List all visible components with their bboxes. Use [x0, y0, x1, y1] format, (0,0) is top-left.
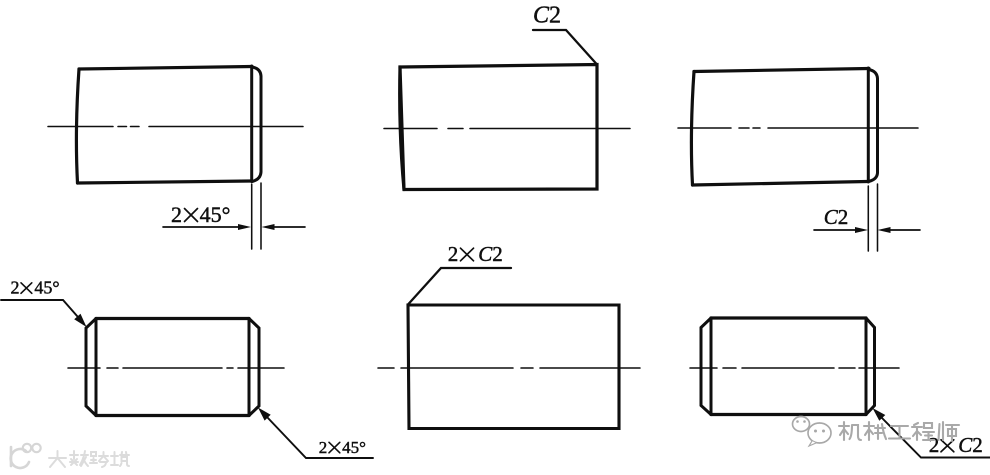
- left chamfer base line (bottom-right pin): [710, 318, 713, 415]
- svg-text:C2: C2: [824, 205, 849, 229]
- svg-text:C2: C2: [533, 3, 561, 29]
- watermark large chat bubble: [808, 423, 831, 443]
- watermark char kua: [90, 452, 108, 467]
- leader text 2xC2 (bottom-right): [929, 433, 983, 457]
- right chamfer end face (bottom-left pin): [249, 319, 259, 416]
- watermark char xie: [864, 422, 886, 440]
- watermark char shi: [939, 422, 960, 441]
- svg-text:2: 2: [171, 202, 182, 227]
- leader line C2 (top-middle): [533, 30, 597, 65]
- extension lines for 2x45 dimension: [252, 183, 261, 249]
- centerline (top-right shaft): [678, 127, 918, 129]
- dimension line right segment: [273, 226, 305, 228]
- svg-text:45°: 45°: [342, 438, 366, 457]
- right chamfer base line (bottom-left pin): [248, 319, 251, 416]
- leader line 2xC2 (bottom-middle): [408, 268, 511, 305]
- leader arrow (points to chamfer corner, bottom-right pin): [873, 408, 886, 421]
- left chamfer end face (bottom-left pin): [86, 319, 96, 416]
- leader arrow upper-left (points to chamfer corner): [74, 314, 86, 327]
- dimension text 2x45deg: [171, 202, 230, 227]
- shaft body outline (top-right): [691, 69, 869, 186]
- leader arrow lower-right (points to chamfer corner): [258, 408, 271, 421]
- centerline (top-middle): [384, 128, 630, 130]
- left chamfer base line (bottom-left pin): [95, 319, 98, 416]
- centerline (bottom-middle): [378, 367, 640, 369]
- svg-text:2: 2: [319, 438, 328, 457]
- leader text upper-left 2x45deg: [11, 278, 60, 298]
- dimension arrow right (points left): [262, 224, 275, 230]
- dimension arrow left (points right): [855, 227, 868, 233]
- centerline (top-left shaft): [48, 126, 303, 128]
- dimension line left segment: [163, 226, 240, 228]
- chamfer base line (top-left shaft): [250, 66, 253, 182]
- shaft body outline (top-left): [76, 67, 252, 184]
- svg-text:2: 2: [11, 278, 20, 298]
- pin body outline (bottom-left): [96, 319, 249, 416]
- svg-text:45°: 45°: [34, 278, 59, 298]
- centerline (bottom-left pin): [68, 367, 284, 369]
- dimension arrow left (points right): [238, 224, 251, 230]
- dimension line right segment (C2): [890, 229, 920, 231]
- dimension arrow right (points left): [878, 227, 891, 233]
- svg-text:2: 2: [448, 242, 459, 266]
- right chamfer base line (bottom-right pin): [865, 318, 868, 415]
- watermark bubble eyes: [796, 420, 825, 432]
- right chamfer end face (bottom-right pin): [866, 318, 875, 415]
- chamfer end face (top-right shaft): [869, 70, 878, 182]
- rectangle body (top-middle): [400, 65, 597, 190]
- watermark char da: [49, 451, 66, 467]
- pin body outline (bottom-right): [711, 318, 866, 415]
- watermark char jing: [111, 452, 129, 466]
- centerline (bottom-right pin): [690, 367, 899, 369]
- watermark logo crescent: [11, 449, 29, 468]
- watermark char ji: [839, 422, 861, 440]
- dimension line left segment (C2): [814, 229, 856, 231]
- watermark char gong: [889, 426, 910, 439]
- extension lines for C2 dimension: [868, 184, 877, 251]
- leader line lower-right 2x45: [267, 417, 373, 458]
- leader text lower-right 2x45deg: [319, 438, 366, 457]
- svg-text:C2: C2: [478, 242, 503, 266]
- leader line lower-right 2xC2: [882, 418, 990, 458]
- watermark small chat bubble: [793, 417, 810, 432]
- rectangle body (bottom-middle): [408, 305, 619, 429]
- leader text 2xC2 (bottom-middle): [448, 242, 503, 266]
- chamfer end face (top-left shaft): [252, 67, 261, 182]
- leader line upper-left 2x45: [1, 300, 78, 317]
- watermark char cheng: [912, 423, 934, 440]
- left chamfer end face (bottom-right pin): [701, 318, 711, 415]
- svg-text:45°: 45°: [200, 202, 231, 227]
- watermark logo circles 100: [23, 444, 31, 452]
- watermark char shu: [70, 451, 88, 466]
- svg-text:C2: C2: [958, 433, 983, 457]
- watermark logo bar: [10, 447, 13, 466]
- chamfer base line (top-right shaft): [867, 68, 870, 182]
